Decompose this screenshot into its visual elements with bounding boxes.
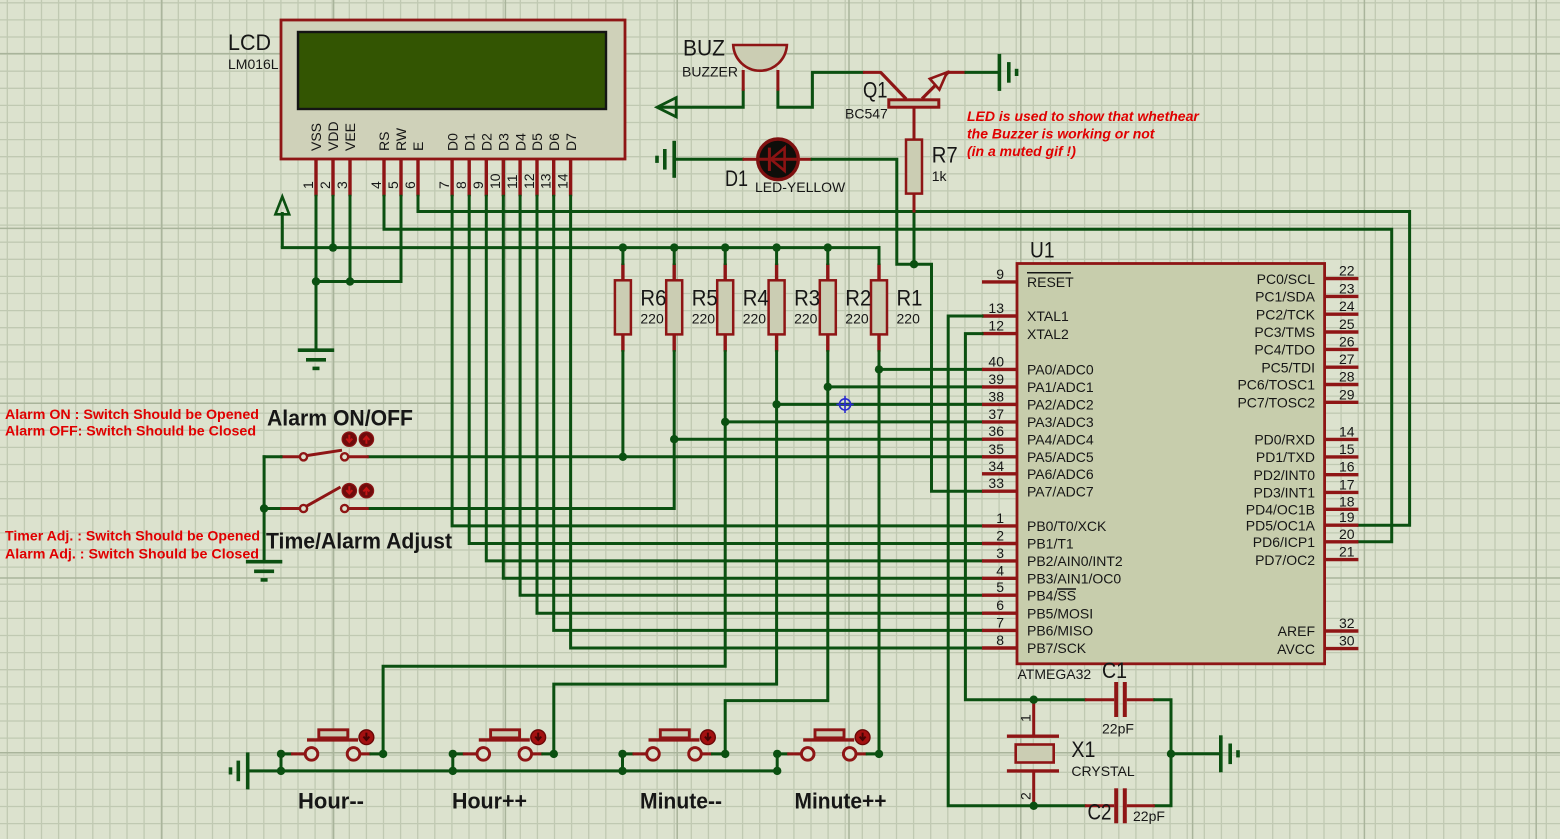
svg-text:9: 9 <box>996 266 1004 282</box>
node crystal ground junction <box>1167 750 1175 758</box>
svg-text:13: 13 <box>988 300 1004 316</box>
svg-text:9: 9 <box>470 181 486 189</box>
svg-text:PB5/MOSI: PB5/MOSI <box>1027 605 1093 621</box>
svg-text:LM016L: LM016L <box>228 56 279 72</box>
svg-text:21: 21 <box>1339 544 1355 560</box>
LED D1 LED-YELLOW <box>725 139 846 195</box>
svg-text:AREF: AREF <box>1278 623 1315 639</box>
node PA4 junction <box>670 435 678 443</box>
svg-text:Alarm OFF: Switch Should be Cl: Alarm OFF: Switch Should be Closed <box>5 423 256 439</box>
LCD pins 1-14 <box>316 159 571 196</box>
svg-text:D3: D3 <box>496 133 512 151</box>
svg-text:11: 11 <box>504 174 520 189</box>
ground LED D1 <box>657 141 674 178</box>
svg-text:R2: R2 <box>845 286 871 311</box>
svg-text:U1: U1 <box>1030 238 1055 263</box>
svg-text:R1: R1 <box>897 286 923 311</box>
svg-text:Alarm ON/OFF: Alarm ON/OFF <box>267 406 413 431</box>
wire R3 top to rail <box>775 248 778 264</box>
wire RS net to PD6 <box>384 196 1392 542</box>
power terminal arrow <box>275 197 289 248</box>
svg-text:220: 220 <box>692 311 716 327</box>
svg-text:16: 16 <box>1339 459 1355 475</box>
svg-text:PC0/SCL: PC0/SCL <box>1257 271 1316 287</box>
svg-text:D7: D7 <box>563 133 579 151</box>
button Minute++ <box>777 730 879 771</box>
svg-text:PD4/OC1B: PD4/OC1B <box>1246 502 1315 518</box>
svg-text:D4: D4 <box>512 133 528 151</box>
svg-text:R5: R5 <box>692 286 718 311</box>
node R3 rail junction <box>772 243 780 251</box>
node VSS junction <box>312 277 320 285</box>
U1 left pins <box>982 266 1123 656</box>
svg-text:LCD: LCD <box>228 30 271 55</box>
resistor R7 1k <box>906 107 958 212</box>
svg-text:PB2/AIN0/INT2: PB2/AIN0/INT2 <box>1027 553 1123 569</box>
svg-text:Minute--: Minute-- <box>640 789 722 814</box>
ground buttons rail <box>231 752 248 789</box>
svg-text:BUZZER: BUZZER <box>682 64 738 80</box>
crystal X1 <box>1007 701 1135 804</box>
node R7-LED junction <box>910 260 918 268</box>
svg-text:7: 7 <box>996 614 1004 630</box>
svg-text:2: 2 <box>1018 792 1034 800</box>
svg-text:PC4/TDO: PC4/TDO <box>1254 342 1315 358</box>
button Minute-- <box>623 730 726 771</box>
svg-text:23: 23 <box>1339 280 1355 296</box>
svg-text:BUZ: BUZ <box>683 36 725 61</box>
svg-text:CRYSTAL: CRYSTAL <box>1071 763 1134 779</box>
wire R4 top to rail <box>724 248 727 264</box>
node PA0 junction <box>875 365 883 373</box>
svg-text:10: 10 <box>487 173 503 189</box>
annotation alarm switch note <box>5 406 259 439</box>
svg-text:Alarm Adj. : Switch Should be: Alarm Adj. : Switch Should be Closed <box>5 546 259 562</box>
svg-text:220: 220 <box>845 311 869 327</box>
wire E net to PD5 <box>418 196 1410 525</box>
wire R1 / Minute++ to PA0 <box>879 352 982 754</box>
wire D0 to PB0 <box>452 196 982 526</box>
svg-text:PA0/ADC0: PA0/ADC0 <box>1027 362 1094 378</box>
svg-text:XTAL1: XTAL1 <box>1027 308 1069 324</box>
svg-text:PD6/ICP1: PD6/ICP1 <box>1253 534 1315 550</box>
wire R6 top to rail <box>621 248 624 264</box>
svg-text:14: 14 <box>554 173 570 189</box>
svg-text:RS: RS <box>376 132 392 151</box>
wire R5 / switch to PA4 <box>369 352 982 509</box>
svg-text:5: 5 <box>385 181 401 189</box>
node switch column junction <box>260 504 268 512</box>
svg-text:33: 33 <box>988 475 1004 491</box>
wire switch column <box>263 457 266 562</box>
svg-text:Hour++: Hour++ <box>452 789 527 814</box>
ground LCD VSS <box>298 350 334 368</box>
wire Q1 emitter to ground <box>966 71 999 74</box>
wire crystal ground stub <box>1171 752 1221 755</box>
svg-text:LED-YELLOW: LED-YELLOW <box>755 179 846 195</box>
svg-text:2: 2 <box>996 528 1004 544</box>
wire R2 / Minute-- to PA1 <box>725 352 982 754</box>
terminal arrow buzzer output <box>657 98 676 117</box>
svg-text:PB7/SCK: PB7/SCK <box>1027 640 1087 656</box>
wire C1 to ground column <box>1155 700 1171 806</box>
resistor R1 220 <box>871 264 923 352</box>
svg-text:15: 15 <box>1339 441 1355 457</box>
resistor R4 220 <box>717 264 769 352</box>
svg-text:35: 35 <box>988 441 1004 457</box>
svg-text:C1: C1 <box>1102 658 1127 683</box>
wire D7 to PB7 <box>571 196 982 648</box>
microcontroller U1 ATMEGA32 body <box>1017 238 1325 683</box>
wire D1 to PB1 <box>469 196 982 543</box>
button Hour-- <box>281 730 383 771</box>
node R2 rail junction <box>824 243 832 251</box>
svg-text:BC547: BC547 <box>845 106 888 122</box>
svg-text:PA3/ADC3: PA3/ADC3 <box>1027 414 1094 430</box>
svg-text:PB4/SS: PB4/SS <box>1027 587 1076 603</box>
svg-text:PD0/RXD: PD0/RXD <box>1254 432 1315 448</box>
svg-text:PD5/OC1A: PD5/OC1A <box>1246 517 1316 533</box>
svg-text:PB1/T1: PB1/T1 <box>1027 536 1074 552</box>
LCD pin names VSS VDD VEE RS RW E D0-D7 <box>308 121 579 151</box>
wire SW2 left lead <box>264 507 281 510</box>
svg-text:VDD: VDD <box>325 121 341 151</box>
LCD display LM016L body <box>281 20 625 159</box>
resistor R6 220 <box>615 264 667 352</box>
svg-text:PA5/ADC5: PA5/ADC5 <box>1027 449 1094 465</box>
svg-text:R3: R3 <box>794 286 820 311</box>
svg-text:220: 220 <box>897 311 921 327</box>
svg-text:C2: C2 <box>1088 800 1112 825</box>
U1 right pins <box>1237 263 1358 657</box>
switch SW2 Time/Alarm Adjust <box>280 484 373 513</box>
wire R6 / switch to PA5 <box>369 352 982 457</box>
svg-text:19: 19 <box>1339 509 1355 525</box>
svg-text:PD7/OC2: PD7/OC2 <box>1255 552 1315 568</box>
button Hour++ <box>453 730 554 771</box>
resistor R5 220 <box>666 264 718 352</box>
node R6 rail junction <box>619 243 627 251</box>
wire XTAL1 to crystal/C2 <box>948 316 1085 806</box>
wire R4 / Hour-- to PA3 <box>383 352 982 754</box>
wire R3 / Hour++ to PA2 <box>554 352 982 754</box>
wire VDD to power rail <box>332 196 335 247</box>
ground crystal <box>1221 735 1238 772</box>
origin marker <box>836 396 853 413</box>
node Hour++ terminals <box>449 750 558 775</box>
LCD label <box>228 30 279 72</box>
svg-text:22: 22 <box>1339 263 1355 279</box>
svg-text:PC1/SDA: PC1/SDA <box>1255 289 1316 305</box>
wire buzzer left leg to terminal <box>659 91 743 108</box>
svg-text:Timer Adj. : Switch Should be: Timer Adj. : Switch Should be Opened <box>5 528 260 544</box>
node crystal pin1 <box>1030 696 1038 704</box>
svg-text:220: 220 <box>640 311 664 327</box>
svg-text:AVCC: AVCC <box>1277 641 1315 657</box>
node Minute++ terminals <box>773 750 883 775</box>
node VDD-rail junction <box>329 243 337 251</box>
svg-text:D6: D6 <box>546 133 562 151</box>
svg-text:28: 28 <box>1339 369 1355 385</box>
svg-text:5: 5 <box>996 579 1004 595</box>
node PA3 junction <box>721 418 729 426</box>
svg-text:E: E <box>410 142 426 151</box>
wire D4 to PB4 <box>520 196 982 595</box>
wire SW1 left lead <box>264 455 281 458</box>
svg-text:220: 220 <box>794 311 818 327</box>
svg-text:D5: D5 <box>529 133 545 151</box>
svg-text:3: 3 <box>996 545 1004 561</box>
svg-text:36: 36 <box>988 423 1004 439</box>
svg-text:22pF: 22pF <box>1133 808 1165 824</box>
svg-text:PC6/TOSC1: PC6/TOSC1 <box>1237 377 1315 393</box>
svg-text:PA6/ADC6: PA6/ADC6 <box>1027 466 1094 482</box>
LCD pin numbers 1-14 <box>300 173 571 189</box>
svg-text:4: 4 <box>996 562 1004 578</box>
ground Q1 emitter <box>999 54 1016 91</box>
wire LED cathode / R7 to PA7 <box>812 159 982 491</box>
svg-text:1: 1 <box>996 510 1004 526</box>
svg-text:RESET: RESET <box>1027 274 1074 290</box>
node PA2 junction <box>772 400 780 408</box>
resistor R2 220 <box>820 264 872 352</box>
svg-text:D0: D0 <box>444 133 460 151</box>
node PA5 junction <box>619 453 627 461</box>
svg-text:6: 6 <box>402 181 418 189</box>
svg-text:PA2/ADC2: PA2/ADC2 <box>1027 397 1094 413</box>
svg-text:30: 30 <box>1339 633 1355 649</box>
wire D5 to PB5 <box>537 196 982 613</box>
annotation LED note <box>967 108 1200 159</box>
svg-text:Minute++: Minute++ <box>795 789 887 814</box>
wire buzzer right leg to Q1 collector <box>778 72 863 107</box>
svg-text:R6: R6 <box>640 286 666 311</box>
svg-text:220: 220 <box>743 311 767 327</box>
wire ground to LED anode <box>674 158 742 161</box>
wire R5 top to rail <box>673 248 676 264</box>
svg-text:3: 3 <box>334 181 350 189</box>
svg-text:PA4/ADC4: PA4/ADC4 <box>1027 431 1094 447</box>
svg-text:12: 12 <box>521 173 537 189</box>
svg-text:26: 26 <box>1339 333 1355 349</box>
svg-text:14: 14 <box>1339 423 1355 439</box>
svg-text:4: 4 <box>368 181 384 189</box>
svg-text:18: 18 <box>1339 493 1355 509</box>
svg-text:D1: D1 <box>725 166 748 191</box>
svg-text:PC3/TMS: PC3/TMS <box>1254 324 1315 340</box>
buzzer BUZ <box>682 36 787 91</box>
svg-text:PC2/TCK: PC2/TCK <box>1256 306 1316 322</box>
svg-text:37: 37 <box>988 406 1004 422</box>
svg-text:(in a muted gif !): (in a muted gif !) <box>967 143 1076 159</box>
svg-text:7: 7 <box>436 181 452 189</box>
svg-text:VEE: VEE <box>342 123 358 151</box>
svg-text:PD3/INT1: PD3/INT1 <box>1254 485 1316 501</box>
svg-text:40: 40 <box>988 353 1004 369</box>
svg-text:1: 1 <box>1018 714 1034 722</box>
svg-text:the Buzzer is working or not: the Buzzer is working or not <box>967 126 1156 142</box>
svg-text:8: 8 <box>996 632 1004 648</box>
svg-text:24: 24 <box>1339 298 1355 314</box>
svg-text:PD1/TXD: PD1/TXD <box>1256 449 1315 465</box>
svg-text:8: 8 <box>453 181 469 189</box>
svg-text:12: 12 <box>988 318 1004 334</box>
node R4 rail junction <box>721 243 729 251</box>
wire D2 to PB2 <box>486 196 982 561</box>
svg-text:1: 1 <box>300 181 316 189</box>
wire XTAL2 to crystal/C1 <box>965 334 1084 700</box>
svg-text:VSS: VSS <box>308 123 324 151</box>
svg-text:38: 38 <box>988 388 1004 404</box>
node PA1 junction <box>824 383 832 391</box>
svg-text:D1: D1 <box>461 133 477 151</box>
svg-text:PB3/AIN1/OC0: PB3/AIN1/OC0 <box>1027 571 1121 587</box>
svg-text:PA1/ADC1: PA1/ADC1 <box>1027 379 1094 395</box>
capacitor C2 22pF <box>1085 788 1165 824</box>
node VEE junction <box>346 277 354 285</box>
svg-text:34: 34 <box>988 458 1004 474</box>
svg-text:PA7/ADC7: PA7/ADC7 <box>1027 483 1094 499</box>
svg-text:22pF: 22pF <box>1102 721 1134 737</box>
svg-text:RW: RW <box>393 127 409 151</box>
switch SW1 Alarm ON/OFF <box>280 432 373 460</box>
svg-text:X1: X1 <box>1071 737 1095 762</box>
svg-text:39: 39 <box>988 371 1004 387</box>
resistor R3 220 <box>769 264 821 352</box>
node crystal pin2 <box>1030 802 1038 810</box>
svg-text:25: 25 <box>1339 316 1355 332</box>
svg-text:D2: D2 <box>479 133 495 151</box>
wire VSS/VEE/RW ground tie <box>316 196 401 350</box>
wire R1 top to rail <box>878 248 881 264</box>
svg-text:13: 13 <box>538 173 554 189</box>
wire D3 to PB3 <box>503 196 982 578</box>
svg-text:R7: R7 <box>932 143 958 168</box>
svg-text:6: 6 <box>996 597 1004 613</box>
svg-text:PB6/MISO: PB6/MISO <box>1027 623 1093 639</box>
svg-text:Q1: Q1 <box>863 78 888 103</box>
capacitor C1 22pF <box>1085 658 1155 737</box>
ground switches <box>246 562 282 580</box>
svg-text:PB0/T0/XCK: PB0/T0/XCK <box>1027 518 1107 534</box>
svg-text:ATMEGA32: ATMEGA32 <box>1018 666 1092 682</box>
transistor Q1 BC547 <box>845 72 966 122</box>
svg-text:PD2/INT0: PD2/INT0 <box>1254 467 1316 483</box>
svg-text:29: 29 <box>1339 386 1355 402</box>
svg-text:17: 17 <box>1339 476 1355 492</box>
svg-text:32: 32 <box>1339 615 1355 631</box>
wire buttons ground rail <box>248 769 778 772</box>
svg-text:LED is used to show that wheth: LED is used to show that whethear <box>967 108 1200 124</box>
svg-text:PC7/TOSC2: PC7/TOSC2 <box>1237 395 1315 411</box>
svg-text:Hour--: Hour-- <box>298 789 364 814</box>
node Minute-- terminals <box>618 750 729 775</box>
svg-text:Time/Alarm Adjust: Time/Alarm Adjust <box>266 529 453 554</box>
svg-text:27: 27 <box>1339 351 1355 367</box>
svg-text:XTAL2: XTAL2 <box>1027 326 1069 342</box>
wire R2 top to rail <box>826 248 829 264</box>
svg-text:R4: R4 <box>743 286 769 311</box>
svg-text:Alarm ON : Switch Should be Op: Alarm ON : Switch Should be Opened <box>5 406 259 422</box>
svg-text:PC5/TDI: PC5/TDI <box>1261 359 1315 375</box>
svg-text:1k: 1k <box>932 168 948 184</box>
wire D6 to PB6 <box>554 196 982 630</box>
svg-text:2: 2 <box>317 181 333 189</box>
node R5 rail junction <box>670 243 678 251</box>
annotation timer switch note <box>5 528 260 562</box>
svg-text:20: 20 <box>1339 526 1355 542</box>
wire power rail <box>282 246 879 249</box>
node Hour-- terminals <box>277 750 388 775</box>
